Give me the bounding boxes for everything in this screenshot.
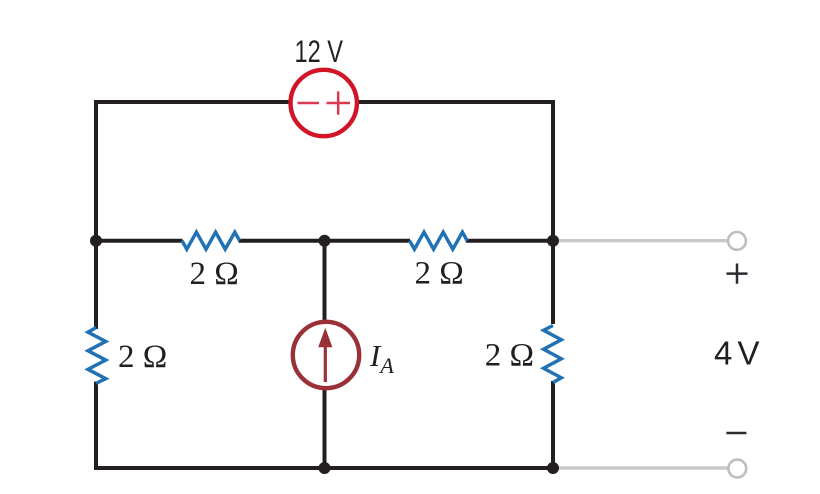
wire gray lead to top terminal xyxy=(553,239,728,242)
node junction right-middle xyxy=(547,235,559,247)
svg-text:2 Ω: 2 Ω xyxy=(485,338,534,374)
svg-text:4 V: 4 V xyxy=(714,335,760,372)
wire middle vertical (current source branch) xyxy=(323,241,327,468)
wire middle horizontal segment a xyxy=(96,239,183,243)
label minus terminal polarity xyxy=(726,432,746,435)
svg-text:2 Ω: 2 Ω xyxy=(118,339,167,375)
resistor R2 2-ohm horizontal right zigzag xyxy=(410,232,468,249)
resistor R3 2-ohm left vertical zigzag xyxy=(88,328,106,384)
resistor R4 2-ohm right vertical zigzag xyxy=(544,326,562,383)
resistor R1 2-ohm horizontal left zigzag xyxy=(182,232,240,249)
current source I1 arrow shaft xyxy=(324,345,327,382)
svg-text:12 V: 12 V xyxy=(295,33,344,69)
current source I1 circle xyxy=(293,322,359,388)
wire middle horizontal segment b xyxy=(239,239,410,243)
label plus terminal polarity xyxy=(727,264,748,284)
node junction center-bottom xyxy=(319,462,331,474)
svg-text:2 Ω: 2 Ω xyxy=(190,256,239,292)
svg-text:IA: IA xyxy=(369,338,394,378)
svg-text:2 Ω: 2 Ω xyxy=(415,256,464,292)
terminal b (bottom open circle) xyxy=(728,460,746,478)
wire gray lead to bottom terminal xyxy=(553,466,728,469)
node junction center-middle xyxy=(319,235,331,247)
voltage source V1 plus sign xyxy=(327,91,351,114)
wire middle horizontal segment c xyxy=(466,239,553,243)
node junction left-middle xyxy=(90,235,102,247)
node junction right-bottom xyxy=(547,462,559,474)
terminal a (top open circle) xyxy=(728,232,746,250)
current source I1 arrow head xyxy=(318,328,332,347)
wire top loop: left vertical upper + top wire + right vertical upper xyxy=(96,102,553,329)
voltage source V1 minus sign xyxy=(298,102,320,105)
wire bottom loop: left vertical lower + bottom wire + right vertical lower xyxy=(96,381,553,468)
voltage source V1 12V circle xyxy=(291,70,357,136)
